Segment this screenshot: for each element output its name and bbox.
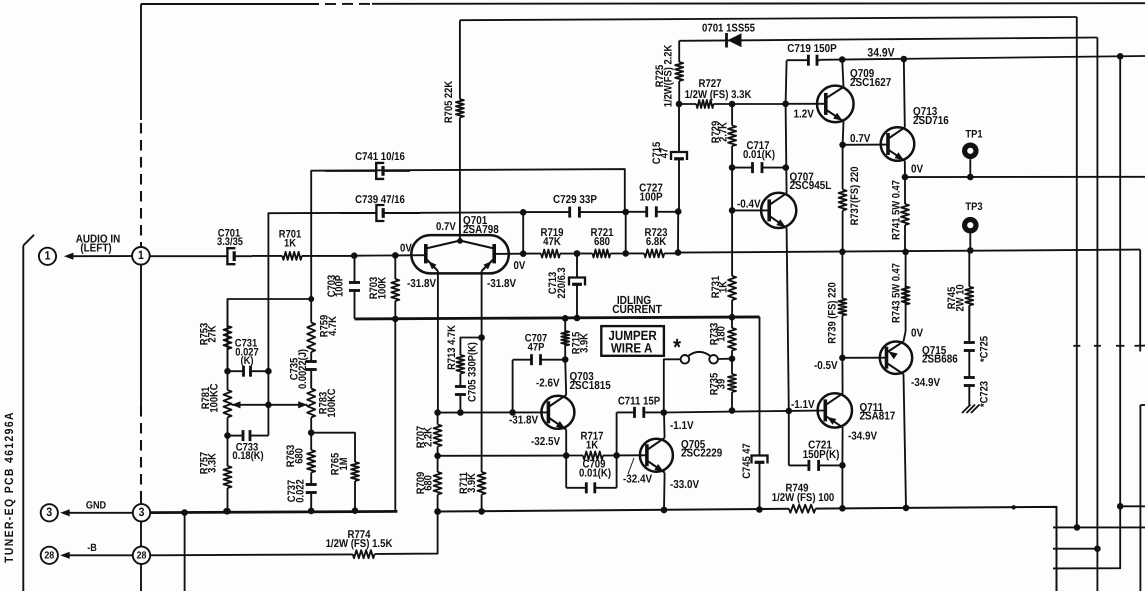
wire C741 line [311, 169, 625, 299]
svg-text:150P(K): 150P(K) [803, 449, 840, 461]
svg-text:2SC945L: 2SC945L [790, 180, 832, 192]
wire C729 link vertical [622, 209, 629, 254]
svg-text:0V: 0V [911, 327, 923, 339]
wire base line to Q705 [617, 454, 647, 456]
connector pin 1 outer [39, 248, 56, 265]
resistor R741 [891, 177, 910, 255]
svg-text:0.0022(J): 0.0022(J) [297, 349, 309, 389]
svg-text:WIRE A: WIRE A [611, 341, 653, 356]
resistor R765 [311, 433, 359, 514]
svg-text:28: 28 [44, 550, 54, 561]
resistor R735 [709, 359, 737, 414]
wire bottom rail right [434, 505, 1016, 515]
svg-text:GND: GND [86, 499, 107, 511]
wire 34.9V rail [820, 46, 1145, 63]
resistor R757 [199, 436, 232, 515]
transistor Q709 [794, 68, 892, 122]
wire emitter row [438, 455, 567, 457]
wire GND arrow [60, 509, 133, 516]
capacitor C725 [964, 305, 991, 368]
resistor R703 [368, 255, 399, 511]
svg-text:(LEFT): (LEFT) [80, 243, 111, 255]
svg-text:34.9V: 34.9V [867, 46, 894, 60]
transistor Q705 [623, 420, 722, 491]
svg-text:R741 5W 0.47: R741 5W 0.47 [891, 180, 903, 240]
text GND [86, 499, 107, 511]
wire GND drop [184, 513, 186, 591]
svg-text:3.3K: 3.3K [207, 453, 219, 473]
svg-text:0V: 0V [400, 242, 412, 254]
capacitor C735 [289, 349, 317, 389]
wire 0V line TP1 [905, 174, 1145, 181]
wire AUDIO IN arrow [64, 253, 132, 260]
svg-text:680: 680 [423, 475, 435, 491]
capacitor C709 [566, 455, 616, 493]
resistor R719 [523, 227, 580, 258]
resistor R729 [710, 104, 736, 171]
svg-text:-31.8V: -31.8V [407, 278, 436, 290]
svg-text:1/2W (FS) 3.3K: 1/2W (FS) 3.3K [685, 89, 752, 101]
node 1 inner circle [132, 247, 150, 265]
bus vertical right 2 [1096, 38, 1098, 591]
resistor R727 [679, 78, 789, 108]
svg-text:180: 180 [716, 326, 728, 342]
bus vertical right 1 [1076, 17, 1078, 527]
svg-text:1: 1 [138, 248, 144, 262]
svg-text:R727: R727 [698, 78, 721, 90]
wire Q709 base line [786, 103, 826, 105]
text -B [87, 542, 97, 554]
svg-text:1K: 1K [586, 440, 598, 452]
svg-text:680: 680 [293, 448, 305, 464]
wire bottom-right rail corner [906, 507, 1057, 591]
wire Q711 collector [841, 358, 843, 394]
wire jumper arc [688, 352, 711, 356]
svg-text:-0.5V: -0.5V [814, 360, 838, 372]
svg-text:680: 680 [594, 236, 610, 248]
svg-text:3: 3 [46, 505, 52, 519]
svg-text:28: 28 [137, 550, 147, 561]
wire Q707 collector [786, 104, 787, 193]
wire Q703 base line [434, 409, 548, 416]
wire Q709 emitter [839, 121, 846, 148]
svg-text:100K: 100K [376, 277, 388, 300]
wire R705 feed line [460, 17, 1077, 20]
svg-text:-1.1V: -1.1V [670, 420, 694, 432]
wire Q701 collector riser [459, 20, 461, 241]
resistor R749 [772, 483, 835, 513]
wire input line A [150, 255, 228, 257]
capacitor C731 [224, 338, 272, 377]
resistor R701 [252, 229, 354, 260]
svg-text:*: * [673, 334, 682, 360]
wire C729 line left [420, 209, 527, 254]
resistor R731 [710, 210, 736, 317]
svg-text:3.9K: 3.9K [579, 333, 591, 353]
text AUDIO IN [76, 234, 121, 255]
diode D701 (1SS55) [702, 23, 755, 48]
svg-text:C745 47: C745 47 [741, 443, 753, 478]
wire Q701 right emitter [481, 271, 483, 338]
wire 0V mid rail [678, 247, 1140, 254]
svg-text:TP1: TP1 [965, 128, 982, 140]
box jumper wire A [601, 326, 664, 356]
wire top frame line [141, 2, 1145, 5]
bus crossing tick 3 [1116, 345, 1124, 347]
capacitor C723 [964, 368, 991, 407]
svg-text:R705 22K: R705 22K [443, 81, 455, 123]
resistor R743 [891, 252, 910, 342]
test point TP3 [962, 201, 983, 250]
resistor R707 [415, 413, 442, 460]
svg-text:100P: 100P [639, 192, 662, 204]
svg-text:2W 10: 2W 10 [955, 284, 967, 311]
capacitor C727 [626, 183, 679, 218]
svg-text:2SA798: 2SA798 [463, 224, 499, 236]
svg-text:0.022: 0.022 [294, 479, 306, 502]
capacitor C741 [325, 151, 410, 179]
svg-text:3: 3 [139, 505, 145, 519]
svg-text:-2.6V: -2.6V [536, 377, 560, 389]
transistor Q701 (dual 2SA798) [400, 215, 526, 290]
capacitor C737 [286, 479, 317, 514]
transistor Q703 [509, 371, 611, 448]
capacitor C703 [326, 256, 395, 319]
svg-text:R739 (FS) 220: R739 (FS) 220 [827, 282, 839, 343]
svg-text:CURRENT: CURRENT [612, 302, 662, 316]
capacitor C715 [651, 104, 687, 215]
wire jumper right leg [718, 355, 735, 362]
capacitor C711 [617, 395, 664, 455]
svg-text:2SC1815: 2SC1815 [570, 380, 612, 392]
capacitor C719 [786, 43, 837, 104]
svg-text:R713 4.7K: R713 4.7K [446, 325, 458, 370]
wire idling drop [759, 317, 761, 450]
capacitor C733 [224, 430, 268, 462]
svg-text:2SC1627: 2SC1627 [850, 77, 891, 89]
resistor R723 [626, 227, 678, 257]
svg-text:1/2W (FS) 1.5K: 1/2W (FS) 1.5K [326, 538, 393, 550]
svg-text:-1.1V: -1.1V [791, 399, 815, 411]
resistor R759 [307, 299, 339, 359]
svg-text:1/2W (FS) 100: 1/2W (FS) 100 [772, 492, 835, 504]
wire tone top link [228, 296, 315, 371]
transistor Q713 [881, 106, 949, 161]
wire Q705 collector [663, 413, 666, 438]
bus crossing tick 2 [1094, 345, 1101, 347]
capacitor C717 [732, 140, 789, 173]
svg-text:0.18(K): 0.18(K) [232, 450, 264, 462]
wire Q707 base line [732, 198, 769, 210]
text -1.1V near Q711 [791, 399, 815, 411]
wire -1.1V line [664, 408, 826, 415]
wire -0.5V line [814, 358, 887, 373]
connector pin 28 outer [41, 547, 58, 564]
resistor R709 [415, 456, 442, 515]
wire wiper link [232, 401, 308, 408]
svg-text:1.2V: 1.2V [794, 108, 815, 120]
svg-text:-31.8V: -31.8V [509, 415, 538, 427]
wire 506V stub [1117, 503, 1145, 510]
capacitor C721 [789, 411, 843, 471]
text idling current [612, 293, 662, 316]
svg-text:2.2K: 2.2K [423, 427, 435, 447]
wire 0V rail right corner [1135, 250, 1145, 352]
resistor R737 [839, 145, 861, 255]
node 28 inner circle [133, 547, 150, 564]
svg-text:R737(FS) 220: R737(FS) 220 [849, 167, 861, 226]
bus vertical right 3 [1053, 56, 1120, 568]
svg-text:4.7K: 4.7K [327, 316, 339, 336]
wire Q713 emitter [902, 161, 924, 181]
wire diode supply line [679, 38, 1097, 41]
svg-text:100KC: 100KC [326, 388, 338, 417]
transistor Q707 [761, 171, 831, 228]
wire Q703 collector [565, 360, 566, 395]
svg-text:-34.9V: -34.9V [911, 377, 940, 389]
wire 0.7V line [843, 133, 888, 145]
text jumper asterisk [673, 334, 682, 360]
svg-text:1K: 1K [284, 237, 296, 249]
svg-text:2SD716: 2SD716 [913, 115, 949, 127]
connector pin 3 outer [41, 504, 58, 521]
svg-text:47K: 47K [543, 236, 561, 248]
svg-text:C729 33P: C729 33P [553, 194, 597, 206]
wire Q711 emitter [839, 427, 846, 511]
test point TP1 [962, 128, 983, 177]
resistor R763 [285, 433, 315, 479]
svg-text:0V: 0V [514, 260, 526, 272]
svg-text:0701 1SS55: 0701 1SS55 [702, 23, 755, 35]
jumper terminal left [681, 355, 690, 364]
resistor R713 [446, 325, 485, 373]
svg-text:TP3: TP3 [965, 201, 982, 213]
svg-text:C719 150P: C719 150P [787, 43, 837, 55]
wire Q709 collector [842, 60, 843, 87]
svg-text:47P: 47P [528, 341, 545, 353]
svg-text:100KC: 100KC [209, 383, 221, 412]
wire right emitter to R711 [481, 338, 483, 457]
wire C739 vertical [268, 213, 340, 436]
svg-text:R743 5W 0.47: R743 5W 0.47 [891, 263, 903, 323]
svg-text:-34.9V: -34.9V [848, 430, 877, 442]
capacitor C707 [513, 333, 569, 413]
svg-text:-31.8V: -31.8V [487, 278, 516, 290]
wire Q701 right base [494, 250, 526, 257]
svg-text:(K): (K) [240, 355, 253, 367]
resistor R705 [443, 81, 464, 123]
svg-text:TUNER-EQ PCB 461296A: TUNER-EQ PCB 461296A [2, 411, 16, 563]
wire Q705 emitter [663, 473, 666, 511]
capacitor C745 [741, 443, 768, 513]
wire -B arrow [60, 552, 133, 559]
svg-text:-33.0V: -33.0V [670, 479, 699, 491]
wire C715 to 0V rail [675, 212, 682, 256]
svg-text:1M: 1M [338, 457, 350, 470]
svg-text:0.01(K): 0.01(K) [579, 468, 611, 480]
resistor R745 [946, 250, 973, 340]
wire connector bracket [23, 235, 34, 591]
svg-text:39: 39 [716, 379, 728, 389]
node 3 inner circle [133, 504, 150, 521]
svg-text:-32.5V: -32.5V [531, 436, 560, 448]
transistor Q715 [880, 327, 958, 388]
svg-text:6.8K: 6.8K [646, 236, 666, 248]
capacitor C701 [217, 227, 252, 264]
potentiometer R781 [200, 371, 232, 435]
wire 527V line [1053, 524, 1145, 531]
wire Q715 collector [903, 374, 910, 511]
svg-text:C705 330P(K): C705 330P(K) [467, 342, 479, 402]
svg-text:1/2W(FS) 2.2K: 1/2W(FS) 2.2K [663, 45, 675, 108]
potentiometer R783 [307, 388, 338, 436]
wire Q713 collector [904, 59, 905, 127]
capacitor C729 [523, 194, 626, 218]
svg-text:2.7K: 2.7K [718, 122, 730, 142]
svg-text:2SB686: 2SB686 [922, 354, 958, 366]
resistor R753 [199, 299, 232, 371]
capacitor C739 [340, 194, 420, 221]
svg-text:C739 47/16: C739 47/16 [355, 194, 405, 206]
svg-text:1: 1 [45, 249, 51, 263]
svg-text:-0.4V: -0.4V [737, 198, 761, 210]
svg-text:-B: -B [87, 542, 97, 554]
svg-text:100P: 100P [334, 275, 346, 297]
svg-text:0V: 0V [911, 164, 923, 176]
svg-text:0.01(K): 0.01(K) [743, 149, 775, 161]
svg-text:-32.4V: -32.4V [623, 474, 652, 486]
wire jumper left leg [661, 359, 681, 416]
resistor R715 [561, 315, 590, 360]
wire input line B [351, 252, 399, 259]
wire idling current line [355, 314, 760, 321]
wire Q707 emitter [787, 228, 789, 411]
svg-text:2SA817: 2SA817 [860, 411, 896, 423]
chassis ground [962, 403, 980, 413]
svg-text:220/6.3: 220/6.3 [556, 267, 568, 298]
resistor R733 [709, 317, 737, 359]
svg-text:C711 15P: C711 15P [618, 395, 661, 407]
resistor R739 [827, 252, 847, 361]
resistor R711 [458, 456, 486, 515]
svg-text:2SC2229: 2SC2229 [681, 448, 722, 460]
jumper terminal right [709, 355, 718, 364]
wire Q701 left emitter [437, 271, 439, 413]
wire GND rail [150, 508, 397, 516]
resistor R725 [654, 41, 683, 108]
wire R729 to base [729, 168, 736, 214]
text PCB title [2, 411, 16, 563]
bus crossing tick 1 [1073, 345, 1080, 347]
wire -B line / resistor R774 [150, 512, 437, 559]
capacitor C705 [455, 342, 479, 413]
svg-text:C741 10/16: C741 10/16 [355, 151, 405, 163]
svg-text:47: 47 [659, 148, 671, 158]
svg-text:*C723: *C723 [979, 381, 991, 407]
svg-text:3.3/35: 3.3/35 [217, 236, 243, 248]
svg-text:*C725: *C725 [979, 336, 991, 362]
wire input line to Q701 [395, 254, 426, 256]
svg-text:3.9K: 3.9K [466, 473, 478, 493]
svg-text:1K: 1K [718, 281, 730, 293]
svg-text:0.7V: 0.7V [436, 221, 456, 233]
wire right edge lower vertical [1140, 405, 1145, 591]
transistor Q711 [818, 393, 896, 442]
svg-text:27K: 27K [207, 325, 219, 342]
svg-text:0.7V: 0.7V [850, 133, 871, 145]
capacitor C713 [547, 250, 585, 318]
wire 549V stub [1053, 545, 1101, 552]
wire left frame dashed vertical [140, 4, 142, 591]
resistor R721 [577, 227, 629, 258]
wire Q703 emitter [563, 430, 570, 459]
resistor R717 [566, 430, 620, 459]
